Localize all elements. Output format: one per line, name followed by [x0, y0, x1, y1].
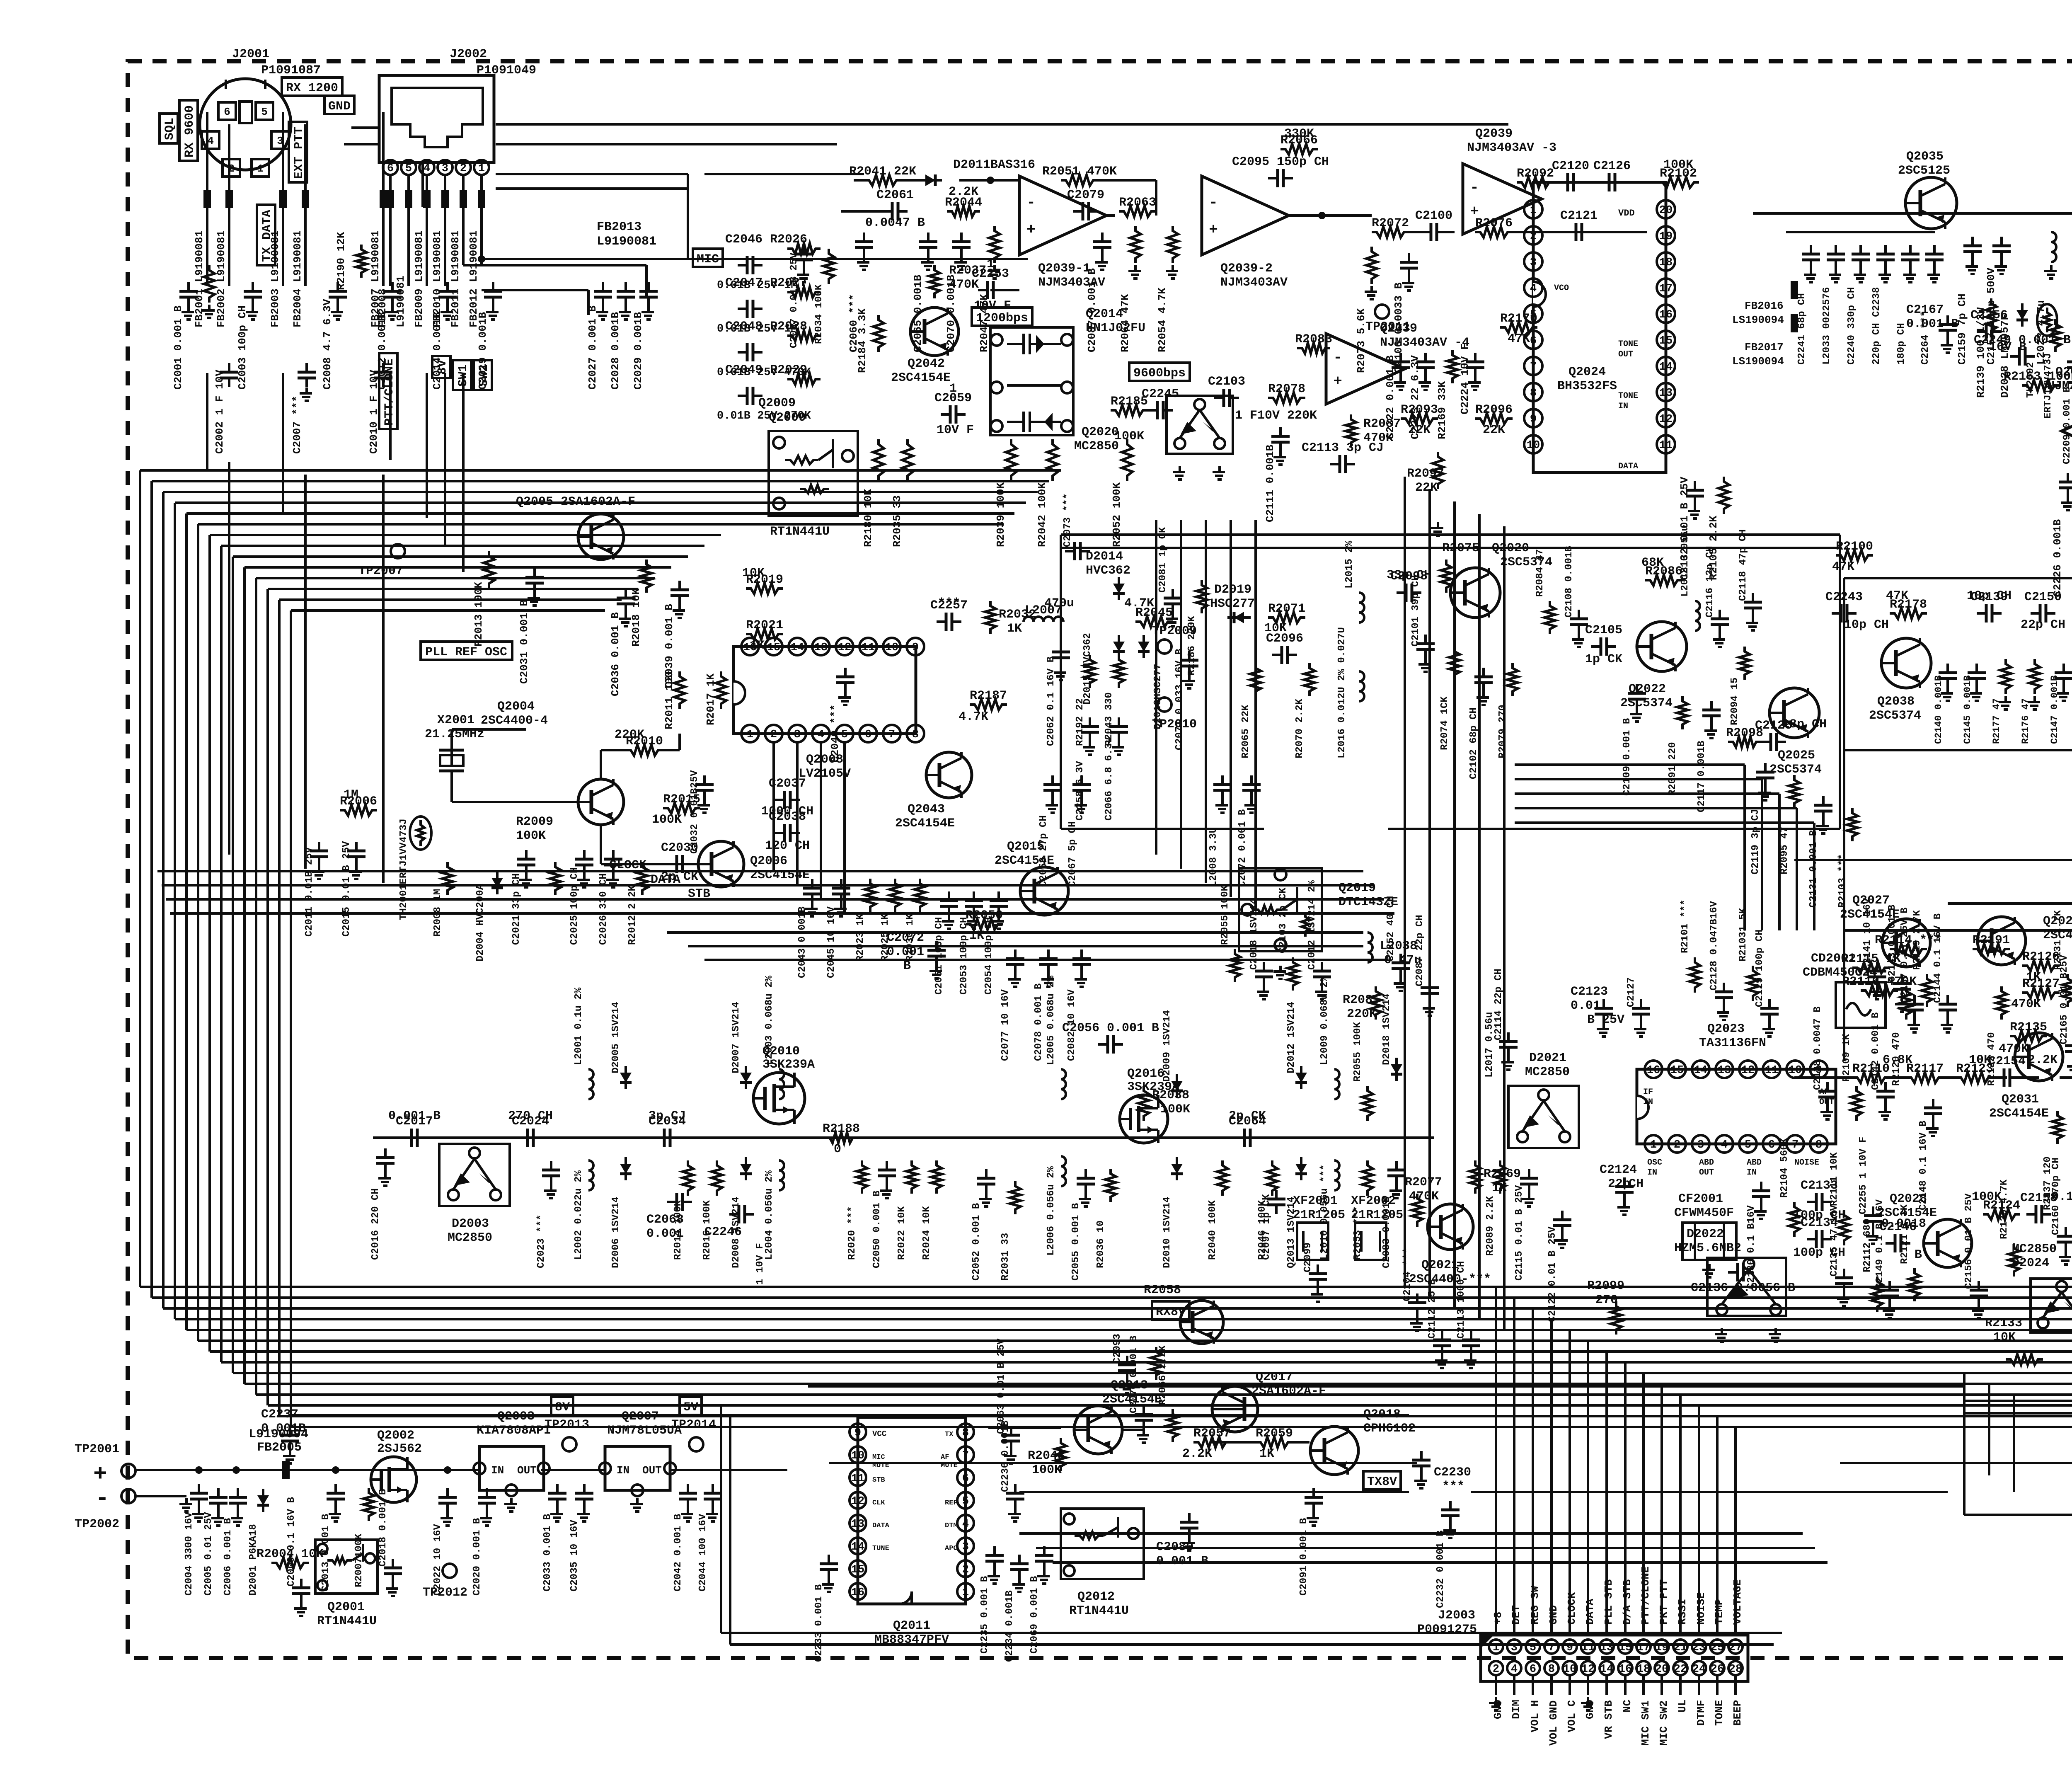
svg-text:L9190081: L9190081	[597, 235, 656, 249]
svg-text:IN: IN	[1647, 1168, 1657, 1177]
label	[1235, 409, 1317, 423]
label	[536, 1214, 547, 1268]
svg-text:R2100: R2100	[1836, 540, 1873, 554]
label	[573, 1170, 584, 1260]
label	[1729, 678, 1740, 725]
svg-text:C2126: C2126	[1593, 159, 1631, 173]
svg-text:2SC5125: 2SC5125	[1898, 164, 1950, 178]
label	[627, 885, 638, 945]
svg-text:B 25V: B 25V	[1587, 1013, 1624, 1027]
capacitor C2003	[244, 282, 262, 306]
label	[1840, 894, 1900, 922]
capacitor C2048	[738, 343, 762, 361]
bead FB2005 L9190094	[249, 1427, 308, 1479]
ground	[1112, 741, 1124, 755]
svg-text:C2149 0.1 B 16V: C2149 0.1 B 16V	[1874, 1199, 1886, 1289]
label	[1986, 1032, 1997, 1086]
label	[1906, 303, 1958, 331]
modem extra caps	[1038, 775, 1261, 887]
svg-text:D2028 LM9957F: D2028 LM9957F	[1999, 314, 2011, 398]
svg-text:PTT/CLONE: PTT/CLONE	[1639, 1567, 1652, 1625]
label	[704, 673, 717, 725]
capacitor C2032	[695, 775, 714, 799]
svg-text:L2006 0.056u 2%: L2006 0.056u 2%	[1046, 1166, 1057, 1256]
capacitor C2073 ***	[1065, 542, 1090, 560]
resistor R2023 1K	[865, 879, 876, 912]
svg-text:C2015 0.01 B 25V: C2015 0.01 B 25V	[341, 841, 352, 937]
diode D2012	[1295, 1066, 1307, 1089]
resistor R2055b 100K	[1230, 949, 1240, 982]
resistor R2109 1K	[1851, 1086, 1862, 1121]
svg-text:7: 7	[1792, 1139, 1798, 1151]
J2003 top net labels	[1492, 1567, 1744, 1625]
capacitor C2055 0.001 B	[1077, 1169, 1095, 1193]
label	[1738, 908, 1749, 962]
label	[1286, 1197, 1297, 1268]
svg-text:R2076: R2076	[1475, 216, 1513, 230]
label	[1620, 682, 1673, 710]
svg-text:R2119 2.7K: R2119 2.7K	[1912, 910, 1923, 970]
svg-text:13: 13	[1659, 387, 1673, 400]
svg-text:R2011 100: R2011 100	[663, 671, 675, 729]
capacitor C2136 0.0056 B	[1728, 1263, 1753, 1281]
label	[610, 1197, 622, 1268]
ground	[2067, 1061, 2072, 1074]
svg-text:FB2004 L9190081: FB2004 L9190081	[291, 230, 304, 327]
label	[1319, 975, 1330, 1065]
resistor R2163 100K	[2004, 370, 2072, 391]
svg-text:Q2016: Q2016	[1127, 1067, 1164, 1081]
label	[887, 931, 924, 973]
resistor R2112 680	[1872, 1276, 1883, 1312]
svg-text:LS190094: LS190094	[1732, 314, 1784, 326]
svg-text:C2230: C2230	[1434, 1465, 1471, 1480]
label	[959, 917, 970, 995]
resistor R2132 470	[1996, 986, 2007, 1020]
label	[1779, 1138, 1790, 1198]
resistor R2042 100K	[1036, 439, 1058, 547]
label	[1405, 1175, 1442, 1204]
svg-text:C2053 100p CH: C2053 100p CH	[959, 917, 970, 995]
inductor L2005 0.068u 2%	[1061, 1069, 1066, 1099]
svg-text:R2096: R2096	[1475, 403, 1513, 417]
ground	[486, 306, 499, 320]
resistor R2102 100K	[1658, 167, 1699, 188]
svg-text:10: 10	[1527, 439, 1540, 452]
svg-text:RT1N441U: RT1N441U	[770, 525, 830, 539]
svg-text:10: 10	[885, 642, 898, 654]
capacitor C2036	[617, 589, 635, 613]
svg-text:C2118 47p CH: C2118 47p CH	[1738, 529, 1749, 601]
resistor R2006 1M	[340, 794, 377, 816]
svg-text:MC2850: MC2850	[1525, 1065, 1570, 1079]
label	[1564, 546, 1575, 618]
capacitor C2135 47 16V	[1835, 1269, 1853, 1293]
resistor R2170 47K	[1500, 312, 1537, 333]
ground	[834, 903, 847, 916]
svg-text:R2121 3.3K: R2121 3.3K	[1899, 1204, 1910, 1264]
label	[1989, 1092, 2049, 1121]
label	[974, 257, 1011, 313]
svg-text:HVC362: HVC362	[1086, 564, 1130, 578]
svg-text:REG SW: REG SW	[1529, 1586, 1541, 1625]
resistor R2011 100	[674, 671, 685, 709]
ground	[2061, 497, 2072, 510]
ground	[1008, 1508, 1021, 1521]
resistor R2178 47K	[1890, 598, 1927, 619]
svg-text:R2177 47: R2177 47	[1991, 698, 2002, 744]
svg-text:3: 3	[962, 1541, 969, 1553]
label	[1114, 429, 1144, 443]
svg-text:R2058: R2058	[1144, 1283, 1181, 1297]
svg-text:2SC4154E: 2SC4154E	[750, 868, 810, 882]
svg-text:2.2K: 2.2K	[1182, 1447, 1212, 1461]
svg-text:R2092: R2092	[1517, 167, 1554, 181]
svg-text:C2103: C2103	[1208, 375, 1245, 389]
resistor R2079 270	[1507, 663, 1518, 696]
label	[1738, 529, 1749, 601]
svg-text:C2065 0.001B: C2065 0.001B	[912, 274, 924, 352]
resistor R2119 2.7K	[1922, 974, 1932, 1007]
diode D2014	[1113, 577, 1125, 600]
capacitor C2035 10 16V	[575, 1484, 593, 1508]
svg-text:R2072: R2072	[1372, 216, 1409, 230]
ground	[519, 874, 532, 887]
squelch base rail	[1794, 1015, 2072, 1078]
svg-text:D2022: D2022	[1687, 1227, 1724, 1241]
svg-text:7: 7	[888, 729, 895, 741]
ground	[1820, 1106, 1833, 1119]
capacitor C2103	[1208, 375, 1245, 407]
inductor L2002 0.022u 2%	[588, 1160, 593, 1190]
net label 8V	[551, 1397, 573, 1415]
svg-text:12: 12	[1659, 413, 1673, 426]
capacitor C2093	[1118, 1356, 1136, 1380]
label	[1264, 621, 1287, 635]
svg-text:IN: IN	[491, 1464, 504, 1477]
svg-text:16V B: 16V B	[1989, 340, 2026, 354]
ground	[1213, 466, 1225, 480]
svg-text:RT1N441U: RT1N441U	[1069, 1604, 1129, 1618]
svg-text:C2057 0.01 B 25V: C2057 0.01 B 25V	[789, 252, 800, 348]
svg-text:6: 6	[387, 162, 394, 175]
svg-text:Q2021: Q2021	[1421, 1258, 1459, 1272]
svg-text:NJM3403AV -3: NJM3403AV -3	[1467, 141, 1556, 155]
resistor R2111 10K	[1839, 1210, 1849, 1245]
label	[1547, 1226, 1558, 1322]
label	[341, 841, 352, 937]
label	[1000, 1233, 1011, 1281]
net label CLOCK	[609, 858, 646, 872]
label R2054	[1156, 288, 1169, 352]
ground	[1837, 1293, 1849, 1306]
svg-text:C2078 0.001 B: C2078 0.001 B	[1033, 983, 1044, 1061]
label	[758, 396, 796, 410]
capacitor C2007	[291, 363, 316, 454]
label	[649, 1109, 686, 1123]
resistor R2044 2.2K	[945, 196, 982, 217]
diode pair D2020	[1167, 396, 1233, 454]
capacitor C2097	[1267, 1190, 1285, 1214]
label	[673, 1514, 684, 1591]
ground	[1926, 1123, 1939, 1136]
wire MIC line	[478, 255, 1028, 263]
svg-text:C2119 3p CJ: C2119 3p CJ	[1750, 809, 1761, 874]
svg-text:10p CH: 10p CH	[1844, 618, 1889, 632]
capacitor C2160 470p CH	[2057, 1227, 2072, 1251]
label	[630, 588, 642, 647]
svg-text:21R1205: 21R1205	[1351, 1208, 1403, 1222]
ground	[1597, 1023, 1609, 1037]
svg-text:R2133: R2133	[1985, 1316, 2022, 1330]
capacitor C2245	[1142, 387, 1179, 419]
svg-text:C2105: C2105	[1585, 623, 1622, 637]
label	[1046, 1166, 1057, 1256]
svg-text:DATA: DATA	[1584, 1599, 1596, 1625]
ground	[967, 916, 979, 929]
capacitor C2113 3p CJ	[1302, 441, 1384, 473]
capacitor C2063 0.01 B 25V	[1002, 1426, 1020, 1450]
svg-text:TX8V: TX8V	[1367, 1475, 1397, 1489]
label	[1385, 896, 1397, 962]
svg-text:19: 19	[1659, 230, 1673, 243]
svg-text:TP2007: TP2007	[358, 564, 403, 578]
svg-text:C2256: C2256	[1970, 308, 2008, 322]
ground	[1829, 269, 1841, 282]
svg-text:C2045 10 16V: C2045 10 16V	[826, 906, 837, 978]
ground	[1054, 667, 1066, 680]
caps C2209 C2212 C2263	[2062, 353, 2072, 464]
ground	[1501, 1056, 1514, 1070]
svg-text:5: 5	[405, 162, 412, 175]
ground	[1878, 1106, 1891, 1119]
svg-text:+: +	[1026, 221, 1036, 238]
svg-text:1 10V F: 1 10V F	[755, 1243, 766, 1285]
svg-text:J2003: J2003	[1438, 1608, 1475, 1623]
svg-text:20: 20	[1655, 1663, 1668, 1676]
resistor R2084 47	[1544, 601, 1555, 634]
svg-text:Q2012: Q2012	[1077, 1590, 1115, 1604]
ferrite bead wires FB2001-FB2007	[203, 112, 387, 286]
capacitor Cf	[1925, 245, 1944, 269]
ground	[231, 1512, 243, 1526]
ground	[1389, 1185, 1402, 1198]
ground	[1012, 1579, 1025, 1592]
label L2023	[2035, 300, 2047, 365]
svg-text:2: 2	[460, 162, 467, 175]
capacitor Cf	[1852, 245, 1870, 269]
label	[2021, 618, 2065, 632]
svg-text:HZM5.6NB2: HZM5.6NB2	[1674, 1241, 1741, 1255]
label	[765, 839, 810, 853]
label	[2051, 1190, 2072, 1204]
svg-text:R2031 33: R2031 33	[1000, 1233, 1011, 1281]
svg-text:47K: 47K	[1886, 589, 1908, 603]
svg-text:0.001 B: 0.001 B	[1906, 317, 1958, 331]
label	[388, 1109, 441, 1123]
inductor L2023	[2051, 232, 2056, 262]
svg-text:P0091275: P0091275	[1417, 1623, 1477, 1637]
label	[1000, 1420, 1011, 1492]
svg-text:Q2004: Q2004	[497, 700, 535, 714]
svg-text:R2052 100K: R2052 100K	[1111, 482, 1123, 547]
svg-text:22K: 22K	[1415, 481, 1438, 495]
svg-text:OSC: OSC	[1647, 1158, 1662, 1167]
ground	[1464, 1355, 1477, 1368]
ground	[822, 1579, 834, 1592]
ground	[1572, 634, 1584, 647]
svg-text:D2006 1SV214: D2006 1SV214	[610, 1197, 622, 1268]
svg-text:C2108 0.001B: C2108 0.001B	[1564, 546, 1575, 618]
label	[1841, 1034, 1852, 1082]
transistor Q2004	[578, 779, 624, 825]
capacitor C2139 10p CH	[1970, 590, 2008, 623]
label	[1210, 583, 1255, 611]
svg-text:0.01: 0.01	[1571, 999, 1600, 1013]
svg-text:R2117: R2117	[1906, 1062, 1944, 1076]
crystal filter XF2001 21R1205	[1293, 1194, 1338, 1260]
svg-text:NC: NC	[1621, 1700, 1634, 1712]
mid bus CLOCK/DATA/STB	[157, 871, 1394, 960]
ground	[1941, 688, 1953, 701]
svg-text:R2191: R2191	[1973, 933, 2010, 947]
svg-text:L2008 3.3U: L2008 3.3U	[1208, 827, 1219, 887]
label	[353, 1533, 365, 1587]
svg-text:DTMF: DTMF	[1695, 1700, 1707, 1726]
capacitor Cf	[2067, 353, 2072, 377]
label	[1028, 1449, 1065, 1477]
svg-text:TH2002: TH2002	[2025, 362, 2036, 398]
capacitor C2004 3300 16V	[190, 1484, 208, 1508]
diode pair D2021	[1508, 1086, 1579, 1148]
svg-text:C2040 ***: C2040 ***	[829, 705, 841, 763]
test point TP2002	[75, 1489, 136, 1531]
ground	[1041, 974, 1054, 987]
left bus bundle vertical	[140, 470, 1061, 1427]
capacitor C2046	[738, 256, 762, 274]
net label STB	[688, 887, 710, 901]
label	[921, 1206, 932, 1260]
svg-text:18: 18	[1637, 1663, 1650, 1676]
capacitor C2065	[919, 233, 937, 257]
capacitor C2147	[2055, 664, 2072, 688]
svg-text:C2222 0.001 B: C2222 0.001 B	[1384, 355, 1397, 439]
label	[378, 1489, 389, 1567]
svg-text:R2127: R2127	[2022, 977, 2060, 991]
resistor R2123 2.2K	[1956, 1062, 1993, 1083]
svg-text:D2018 1SV214: D2018 1SV214	[1381, 993, 1392, 1065]
label	[1381, 1197, 1392, 1268]
ground	[1489, 1697, 1501, 1710]
label	[1046, 656, 1057, 746]
resistor R2022 10K	[906, 1160, 917, 1194]
capacitor C2129 100p CH	[1760, 999, 1779, 1023]
ground	[441, 306, 453, 320]
svg-text:1: 1	[949, 382, 957, 396]
label	[1044, 596, 1074, 610]
svg-text:R2059: R2059	[1256, 1427, 1293, 1441]
label	[1128, 1336, 1140, 1413]
capacitor C2009 0.1 B 16V	[292, 1579, 310, 1603]
ground	[300, 388, 312, 401]
label	[2042, 1156, 2053, 1210]
svg-text:24: 24	[1692, 1663, 1706, 1676]
label	[1427, 1279, 1438, 1339]
svg-text:C2032 0.01B25V: C2032 0.01B25V	[689, 770, 700, 854]
label	[1898, 150, 1950, 178]
svg-text:R2085: R2085	[1343, 993, 1380, 1007]
ground	[619, 306, 631, 320]
capacitor C2031 0.001B	[525, 568, 544, 592]
dual FET Q2014 HN1J02FU	[990, 307, 1145, 435]
ground	[550, 1508, 563, 1521]
label	[891, 357, 951, 385]
svg-text:C2252 40 CH: C2252 40 CH	[1385, 896, 1397, 962]
label	[1883, 1053, 1912, 1067]
svg-text:1: 1	[257, 162, 264, 175]
ground	[577, 1508, 590, 1521]
svg-text:C2066 6.8 6.3V: C2066 6.8 6.3V	[1104, 737, 1115, 821]
label	[1587, 1279, 1624, 1307]
label	[573, 987, 584, 1065]
svg-text:C2109 0.001 B: C2109 0.001 B	[1622, 718, 1633, 796]
capacitor C2037 1000 CH	[769, 777, 806, 809]
resistor R2191 0	[1973, 933, 2010, 954]
connector J2003	[1481, 1635, 1748, 1681]
resistor R2024 10K	[931, 1160, 942, 1194]
svg-text:L9190081: L9190081	[395, 276, 407, 327]
diode D2016	[1138, 635, 1150, 658]
label	[702, 1200, 713, 1260]
svg-text:R2190 12K: R2190 12K	[335, 232, 347, 290]
label l2017	[1484, 1012, 1495, 1078]
capacitor C2114 22p CH	[1499, 1032, 1518, 1056]
capacitor C2054 100p CH	[990, 891, 1008, 916]
wires A to left bus	[207, 373, 463, 883]
svg-text:270: 270	[1595, 1293, 1618, 1307]
FET Q2002	[371, 1429, 422, 1502]
capacitor C2142 0.001 B	[1876, 1082, 1895, 1106]
svg-text:1: 1	[1650, 1139, 1657, 1151]
resistor R2103 ***	[1847, 808, 1858, 841]
wire audio in	[1964, 1514, 2072, 1516]
diode D2015	[1113, 635, 1125, 658]
label	[1409, 1258, 1491, 1286]
ground	[1555, 1235, 1568, 1248]
connector J2003 label	[1417, 1608, 1477, 1637]
svg-text:LV2105V: LV2105V	[799, 767, 851, 781]
svg-text:R2094 15: R2094 15	[1729, 678, 1740, 725]
label	[1046, 975, 1057, 1065]
label	[1678, 477, 1691, 580]
capacitor C2146 0.0018	[1879, 1220, 1917, 1252]
resistor R2027	[787, 287, 821, 298]
net label RX 9600	[179, 100, 198, 161]
svg-text:C2095 150p CH: C2095 150p CH	[1232, 155, 1329, 169]
capacitor C2010	[374, 363, 392, 387]
transistor Q2020	[1450, 568, 1500, 618]
ground	[1870, 986, 1883, 999]
resistor R2050 1K	[966, 908, 1003, 930]
svg-text:14: 14	[1600, 1663, 1613, 1676]
J2003 bottom stubs	[1489, 1675, 1736, 1710]
label	[1408, 423, 1431, 437]
ground	[1754, 1206, 1767, 1219]
svg-text:CPH6102: CPH6102	[1363, 1422, 1416, 1436]
svg-text:IN: IN	[617, 1464, 629, 1477]
svg-text:C2061: C2061	[876, 188, 914, 202]
svg-text:11: 11	[862, 642, 875, 654]
